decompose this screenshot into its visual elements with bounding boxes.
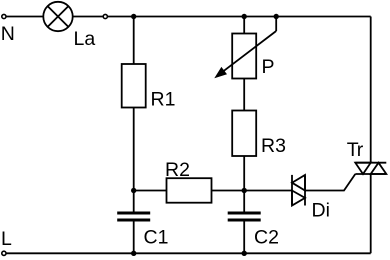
lamp La xyxy=(43,2,72,31)
wire: C1 node to R2 xyxy=(134,190,167,192)
svg-text:R2: R2 xyxy=(165,159,190,181)
junction node C2/R2 xyxy=(242,188,247,193)
svg-text:N: N xyxy=(1,23,15,45)
wire: C2 to bottom rail xyxy=(243,221,245,253)
svg-text:C2: C2 xyxy=(254,227,279,249)
svg-text:P: P xyxy=(262,56,275,78)
wire: top rail xyxy=(108,16,371,18)
resistor R3 xyxy=(232,111,256,157)
terminal after lamp (open circle) xyxy=(103,14,107,18)
svg-text:Tr: Tr xyxy=(347,139,364,161)
wire: C2 node to diac xyxy=(244,190,292,192)
svg-text:R3: R3 xyxy=(261,135,286,157)
wire: R1 to C1 xyxy=(133,108,135,212)
wire: C1 to bottom rail xyxy=(133,221,135,253)
wire: lamp to upper-right terminal xyxy=(73,16,103,18)
terminal L (open circle) xyxy=(2,251,6,255)
junction dot bottom C2 xyxy=(242,251,247,256)
junction dot top P branch xyxy=(242,14,247,19)
wire: P to R3 xyxy=(243,79,245,111)
wire: bottom rail xyxy=(7,252,371,254)
triac Tr xyxy=(355,163,386,174)
junction dot top wiper xyxy=(274,14,279,19)
svg-text:L: L xyxy=(1,228,12,250)
junction node C1/R2 xyxy=(131,188,136,193)
wire: R2 to C2 node xyxy=(212,190,245,192)
resistor R2 xyxy=(167,178,212,203)
resistor R1 xyxy=(122,64,146,108)
svg-text:C1: C1 xyxy=(144,227,169,249)
wire: R1 branch top xyxy=(133,17,135,65)
wire: right rail lower xyxy=(370,174,372,253)
wire: R3 to C2 xyxy=(243,156,245,212)
potentiometer P xyxy=(214,17,276,79)
svg-text:La: La xyxy=(74,28,96,50)
diac Di xyxy=(292,175,305,206)
wire: N terminal to lamp xyxy=(7,16,44,18)
svg-text:Di: Di xyxy=(312,199,330,221)
junction dot bottom C1 xyxy=(131,251,136,256)
wire: diac to triac gate xyxy=(305,174,355,191)
wire: right rail upper xyxy=(370,17,372,163)
capacitor C2 xyxy=(228,213,261,220)
terminal N (open circle) xyxy=(2,14,6,18)
svg-text:R1: R1 xyxy=(151,88,176,110)
junction dot top R1 branch xyxy=(131,14,136,19)
wire: P branch top xyxy=(243,17,245,34)
capacitor C1 xyxy=(117,213,150,220)
